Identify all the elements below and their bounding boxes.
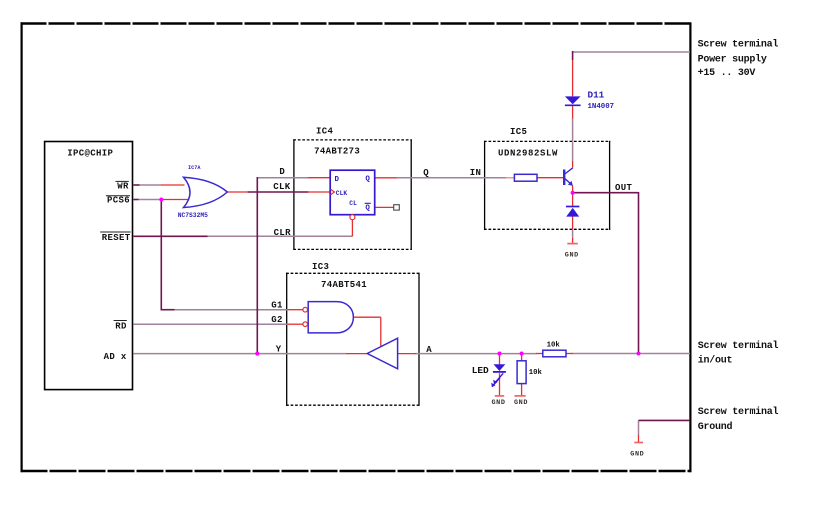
svg-text:IN: IN (470, 168, 482, 178)
svg-text:UDN2982SLW: UDN2982SLW (498, 149, 558, 159)
svg-text:74ABT541: 74ABT541 (321, 280, 367, 290)
svg-text:IC7A: IC7A (188, 165, 201, 171)
svg-text:G2: G2 (271, 315, 283, 325)
svg-text:CL: CL (349, 200, 357, 207)
svg-text:Screw terminal: Screw terminal (698, 340, 779, 352)
svg-text:CLR: CLR (274, 228, 292, 238)
svg-text:IPC@CHIP: IPC@CHIP (67, 149, 113, 159)
svg-text:Screw terminal: Screw terminal (698, 406, 779, 418)
svg-text:GND: GND (630, 451, 644, 459)
svg-text:1N4007: 1N4007 (588, 103, 615, 111)
svg-text:PCS6: PCS6 (107, 196, 130, 206)
svg-text:AD x: AD x (104, 352, 127, 362)
svg-text:74ABT273: 74ABT273 (314, 147, 360, 157)
svg-text:NC7S32M5: NC7S32M5 (178, 212, 208, 219)
svg-text:+15 .. 30V: +15 .. 30V (698, 68, 756, 79)
svg-text:Power supply: Power supply (698, 53, 767, 65)
svg-text:GND: GND (565, 252, 579, 260)
svg-text:G1: G1 (271, 300, 283, 310)
svg-text:Screw terminal: Screw terminal (698, 39, 779, 51)
svg-text:GND: GND (492, 399, 506, 407)
svg-text:10k: 10k (547, 341, 561, 349)
svg-text:GND: GND (514, 399, 528, 407)
svg-text:D: D (279, 167, 285, 177)
svg-text:IC5: IC5 (510, 127, 527, 137)
svg-text:CLK: CLK (273, 182, 291, 192)
svg-text:LED: LED (472, 365, 489, 376)
svg-text:D: D (335, 176, 340, 184)
svg-text:in/out: in/out (698, 354, 733, 366)
svg-text:WR: WR (117, 182, 129, 192)
svg-text:Q: Q (365, 176, 370, 184)
svg-text:D11: D11 (588, 90, 605, 101)
svg-text:Y: Y (276, 344, 282, 354)
svg-text:RESET: RESET (102, 233, 131, 243)
svg-text:10k: 10k (529, 369, 543, 377)
svg-text:RD: RD (115, 321, 127, 331)
svg-text:A: A (426, 345, 432, 355)
svg-text:Q: Q (365, 205, 370, 213)
svg-text:IC4: IC4 (316, 126, 334, 136)
svg-text:Ground: Ground (698, 421, 733, 433)
svg-text:OUT: OUT (615, 183, 633, 193)
svg-text:Q: Q (423, 168, 429, 178)
svg-text:CLK: CLK (336, 190, 348, 197)
svg-text:IC3: IC3 (312, 262, 329, 272)
